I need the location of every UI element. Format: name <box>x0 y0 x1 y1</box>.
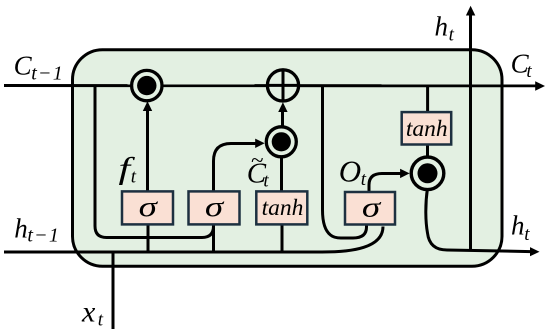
svg-text:tanh: tanh <box>406 116 448 142</box>
svg-text:h: h <box>435 12 449 42</box>
svg-text:t: t <box>524 224 530 245</box>
arrowhead into multiply node 1 <box>143 101 152 111</box>
svg-text:t: t <box>361 169 367 190</box>
tanh top box <box>402 112 452 144</box>
sigma gate 3 (output) box <box>345 192 395 225</box>
LSTM cell body <box>73 50 503 267</box>
svg-text:tanh: tanh <box>262 195 304 221</box>
wire: sigma1 input from h line <box>147 224 150 252</box>
svg-text:σ: σ <box>362 191 382 223</box>
svg-text:t−1: t−1 <box>31 63 64 85</box>
multiply node 2 (candidate x input gate) <box>266 127 296 157</box>
wire: sigma2 output curve to multiply node 2 <box>214 144 257 192</box>
multiply node 1 (forget gate) <box>132 70 162 100</box>
wire: C-line branch 1 down and around into sigma2 input <box>95 86 214 238</box>
sigma gate 1 (forget) box <box>122 191 173 224</box>
arrowhead into multiply node 3 <box>400 169 410 178</box>
svg-text:~: ~ <box>251 148 264 173</box>
wire: multiply node 2 output up to plus node <box>281 112 284 128</box>
wire: cell state line C (top horizontal) <box>4 84 537 87</box>
arrowhead into plus node <box>278 102 287 112</box>
wire: tanh-bottom output up to multiply node 2 <box>280 156 283 191</box>
multiply node 3 (output gate) <box>411 157 444 190</box>
wire: sigma1 output up to multiply node 1 <box>146 110 149 191</box>
svg-text:x: x <box>81 296 96 329</box>
wire: sigma3 output curve to multiply node 3 <box>369 174 401 193</box>
svg-text:σ: σ <box>205 191 225 223</box>
wire: tanh-top output down to multiply node 3 <box>426 145 429 159</box>
wire: C line branch into tanh-top box <box>426 86 429 112</box>
svg-text:t: t <box>449 25 455 46</box>
arrowhead into multiply node 2 <box>255 139 265 148</box>
wire: sigma2 input from h line <box>212 224 215 252</box>
plus node (cell state addition) <box>267 70 298 101</box>
wire: hidden state h input line (bottom horizontal) curving up into sigma O gate <box>4 227 383 253</box>
svg-text:C: C <box>14 50 33 80</box>
svg-text:t: t <box>526 61 532 82</box>
svg-text:t: t <box>131 167 137 188</box>
arrowhead C_t output <box>535 81 545 90</box>
svg-text:t−1: t−1 <box>27 225 60 247</box>
wire: C-line branch 2 down and around into sigma3 input <box>323 86 367 239</box>
svg-text:O: O <box>339 153 361 188</box>
wire: x_t input vertical <box>112 252 115 329</box>
svg-text:t: t <box>263 170 269 191</box>
svg-text:h: h <box>511 210 525 240</box>
sigma gate 2 (input) box <box>189 191 240 224</box>
svg-text:h: h <box>14 214 28 244</box>
wire: h_t upward branch <box>469 15 472 251</box>
wire: h output from multiply node down and right <box>426 188 531 252</box>
arrowhead h_t right output <box>530 247 540 256</box>
tanh bottom (candidate) box <box>256 191 307 224</box>
arrowhead h_t top output <box>466 6 475 16</box>
svg-text:σ: σ <box>139 191 159 223</box>
svg-text:t: t <box>98 310 104 331</box>
wire: tanh-bottom input from h line <box>281 224 284 252</box>
